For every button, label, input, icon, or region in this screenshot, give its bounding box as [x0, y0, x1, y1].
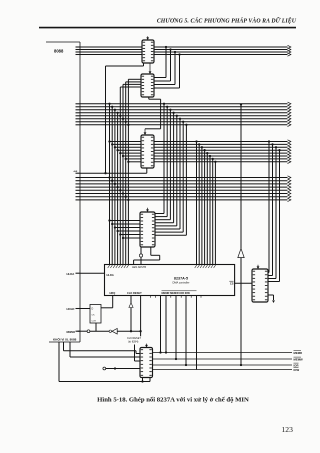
HOLD wire CPU to flip-flop: [80, 308, 90, 310]
svg-text:CLR: CLR: [92, 321, 97, 323]
local address bus verticals to 8237 top-left pins: [108, 79, 141, 264]
CLK wire 8237 down with arrow: [129, 296, 133, 332]
svg-text:HRQ: HRQ: [110, 291, 116, 295]
label CLK RESET tu 8284: [127, 337, 141, 343]
svg-text:CHƯƠNG 5. CÁC PHƯƠNG PHÁP VÀO: CHƯƠNG 5. CÁC PHƯƠNG PHÁP VÀO RA DỮ LIỆU: [157, 17, 297, 25]
strobe stub of U6: [257, 265, 259, 267]
bus data D0-D7 (CPU to right edge) with arrows: [80, 176, 291, 202]
8237 top-right pin hatches: [195, 265, 216, 268]
control bus MEMR MEMW IOR IOW lines: [153, 353, 293, 370]
latch U4 8282: [140, 212, 155, 247]
header rule: [39, 27, 296, 29]
svg-text:HLDA: HLDA: [67, 272, 75, 276]
8237 top-left pin hatches: [108, 265, 129, 268]
wires bus C taps down to 8237 top-right pins: [195, 140, 216, 264]
flip-flop U7 74LS74: [90, 305, 101, 324]
svg-text:HLDA: HLDA: [107, 273, 114, 277]
wires bus B taps down to U4 right-side staircase: [155, 103, 188, 236]
RESET wire 8237 down: [140, 296, 142, 337]
latch U3 74LS373: [141, 135, 154, 168]
strobe wire U2 to U3: [144, 97, 161, 135]
strobe wire U1 to U2: [149, 63, 151, 72]
bus A8-A15 left segment (CPU to latch U1): [80, 47, 142, 55]
svg-text:MN/MX: MN/MX: [67, 330, 76, 334]
CLR wire flip-flop to READY line: [95, 323, 97, 331]
CPU pin ticks: [76, 47, 81, 331]
HLDA wire CPU to 8237: [80, 272, 105, 274]
op 8237A DMA controller U0 box: [105, 265, 235, 296]
label IOR: [294, 363, 299, 368]
CLK RESET wire from inverter to 8237 pins: [117, 330, 142, 332]
svg-text:D: D: [92, 308, 94, 311]
wires local bus to U3 input staircase: [108, 140, 141, 201]
ADSTB loop wire to U4: [134, 247, 160, 265]
ground symbol at U6: [268, 295, 275, 303]
svg-text:Hình 5-18. Ghép nối 8237A với: Hình 5-18. Ghép nối 8237A với vi xử lý ở…: [97, 396, 249, 403]
CPU RD wire to U5: [64, 342, 141, 354]
pin label CS inside: [229, 281, 233, 285]
READY wire from CPU: [78, 330, 110, 333]
label MEMR: [294, 351, 303, 356]
strobe stub of U1: [147, 36, 149, 38]
svg-text:MEMR MEMW IOR IOW: MEMR MEMW IOR IOW: [162, 291, 191, 295]
DREQ wire lower segment: [240, 258, 242, 367]
label MEMW: [294, 357, 304, 362]
svg-text:IOR: IOR: [294, 364, 299, 368]
AEN gate wire to U5 with bubble and junction: [103, 367, 140, 370]
wires local bus to U4 left input staircase: [108, 219, 140, 239]
svg-text:MEMW: MEMW: [294, 358, 304, 362]
svg-text:IOW: IOW: [294, 368, 300, 372]
label IOW: [294, 368, 300, 373]
svg-text:MEMR: MEMR: [294, 351, 303, 355]
8237 bottom pin ticks: [151, 296, 202, 298]
CPU IO-M wire to U5 bottom: [59, 342, 150, 383]
bus A8-A15 right segment with arrows: [154, 45, 291, 56]
bus C A0-A7 from U3 outputs with arrows: [154, 140, 291, 164]
svg-text:AEN ADSTB: AEN ADSTB: [132, 266, 146, 269]
decoder U6 74LS138: [252, 269, 268, 302]
inverter gate on READY wire: [109, 328, 117, 334]
HRQ wire 8237 to flip-flop: [101, 296, 113, 308]
strobe stub of U5: [146, 344, 148, 346]
svg-text:(từ 8284): (từ 8284): [128, 341, 138, 344]
control wires 8237 bottom to control bus: [159, 296, 196, 370]
svg-text:CK: CK: [92, 315, 96, 317]
RESET ribbon wire to U5: [135, 345, 141, 362]
svg-text:8237A-5: 8237A-5: [174, 277, 188, 281]
wires bus C taps down to U6: [268, 140, 281, 281]
ALE riser wire: [105, 66, 107, 173]
svg-text:CLK RESET: CLK RESET: [127, 291, 142, 295]
svg-text:8088: 8088: [54, 49, 64, 54]
wires U2 outputs up to bus A with junctions: [154, 46, 181, 88]
AEN wire with bubble up to U4: [139, 247, 142, 265]
strobe stub of U4: [147, 208, 149, 210]
buffer U5 74LS245: [140, 348, 153, 378]
ALE horizontal wire: [80, 172, 147, 174]
bus AD0-AD7 multiplexed (CPU to right edge) with arrows: [80, 102, 291, 126]
ALE wire to U1: [106, 63, 144, 66]
svg-text:DMA controller: DMA controller: [172, 280, 189, 284]
DREQ wire with buffer from bus B: [240, 103, 242, 248]
svg-text:HOLD: HOLD: [67, 307, 75, 311]
pin labels MEMR MEMW IOR IOW bottom: [162, 291, 197, 295]
svg-text:KHỐI VI XL 8088: KHỐI VI XL 8088: [53, 337, 77, 342]
CPU 8088 block outline: [46, 42, 80, 342]
svg-text:123: 123: [282, 425, 294, 434]
ALE wire to U3 strobe: [146, 168, 148, 173]
svg-text:CS: CS: [230, 282, 234, 286]
CPU WR wire to U5: [70, 342, 140, 357]
CS wire 8237 to U6: [235, 282, 252, 284]
pin labels HRQ CLK RESET bottom: [110, 291, 143, 295]
latch U2 74LS373: [141, 74, 154, 97]
latch U1 74LS373: [142, 40, 154, 63]
buffer driver on DREQ wire: [238, 249, 244, 258]
